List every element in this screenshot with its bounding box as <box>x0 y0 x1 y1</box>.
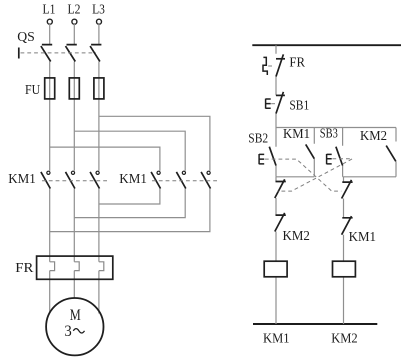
svg-text:SB1: SB1 <box>289 99 309 114</box>
svg-text:KM1: KM1 <box>263 332 290 347</box>
svg-text:KM1: KM1 <box>119 172 147 187</box>
svg-text:3: 3 <box>64 323 71 340</box>
svg-text:KM2: KM2 <box>283 229 310 244</box>
svg-text:FR: FR <box>289 55 305 70</box>
svg-text:L2: L2 <box>68 3 81 18</box>
svg-text:M: M <box>70 307 81 324</box>
svg-text:KM1: KM1 <box>8 172 36 187</box>
svg-text:SB3: SB3 <box>320 126 338 141</box>
svg-text:FU: FU <box>25 83 40 98</box>
svg-text:SB2: SB2 <box>248 132 268 147</box>
svg-text:KM2: KM2 <box>331 332 358 347</box>
svg-text:KM1: KM1 <box>283 127 310 142</box>
svg-text:L3: L3 <box>92 3 105 18</box>
svg-text:KM1: KM1 <box>349 230 376 245</box>
svg-text:KM2: KM2 <box>360 129 387 144</box>
svg-text:QS: QS <box>17 30 35 45</box>
svg-text:FR: FR <box>15 261 34 276</box>
svg-text:L1: L1 <box>43 3 56 18</box>
